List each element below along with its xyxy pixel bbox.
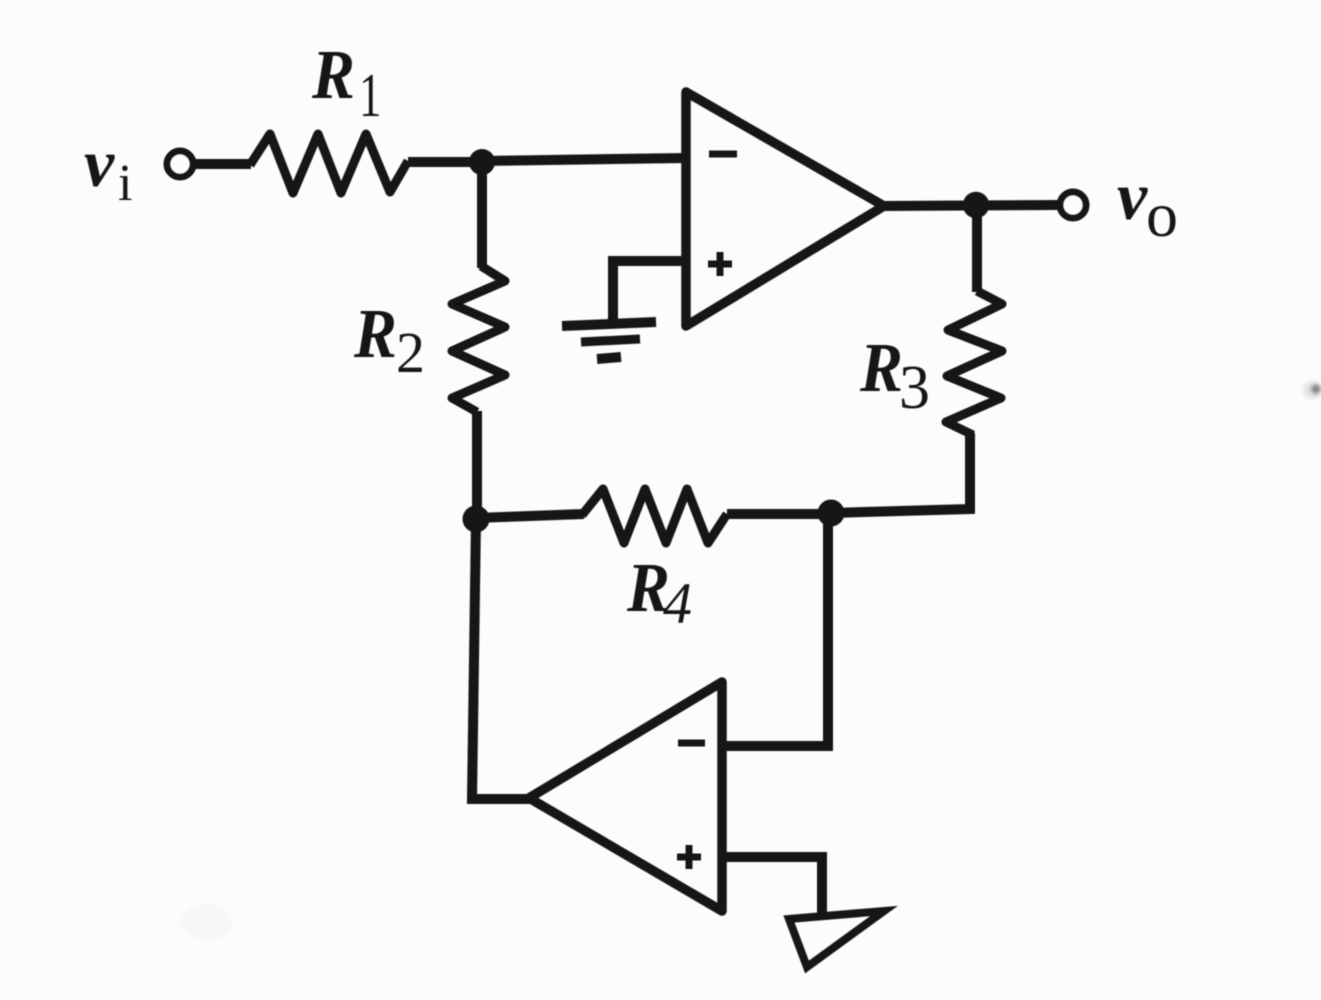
wire vi to R1 xyxy=(194,159,251,169)
node C junction dot xyxy=(818,500,845,527)
svg-text:R: R xyxy=(353,295,397,373)
wire node A down to R2 xyxy=(477,162,487,268)
label R1 xyxy=(311,36,381,130)
label R2 xyxy=(353,295,425,385)
resistor R4 xyxy=(582,489,727,543)
svg-text:v: v xyxy=(84,125,115,201)
svg-text:4: 4 xyxy=(663,571,692,636)
ground G1 xyxy=(562,322,656,359)
svg-text:R: R xyxy=(859,329,903,407)
wire U2 non-inverting input down xyxy=(722,857,822,915)
scan artifact bottom left faint blotch xyxy=(180,904,232,940)
U1 inverting pin minus sign xyxy=(709,151,737,158)
svg-text:v: v xyxy=(1117,158,1148,234)
output terminal vo xyxy=(1060,192,1086,218)
wire R2 to node B xyxy=(472,411,482,520)
scan artifact right edge dot xyxy=(1312,385,1321,394)
wire R3 top to node D xyxy=(972,204,982,292)
node vo label xyxy=(1117,158,1178,250)
label R3 xyxy=(859,329,930,422)
wire node A to op-amp U1 inverting input xyxy=(482,158,686,161)
node vi label xyxy=(84,125,132,212)
U2 non-inverting pin plus sign xyxy=(677,845,701,869)
wire R4 to node C xyxy=(727,509,831,519)
wire U1 non-inverting input to ground xyxy=(613,261,688,321)
node B junction dot xyxy=(463,506,490,533)
node A junction dot xyxy=(469,149,495,175)
label R4 xyxy=(626,549,692,636)
node D junction dot xyxy=(963,192,989,218)
svg-text:o: o xyxy=(1146,179,1178,250)
resistor R2 xyxy=(452,266,505,412)
wire R1 to node A xyxy=(408,157,482,167)
resistor R3 xyxy=(946,291,1002,435)
wire U1 output to terminal vo xyxy=(884,205,1058,206)
wire node B to R4 xyxy=(476,514,584,518)
op-amp U2 xyxy=(529,682,722,911)
svg-text:R: R xyxy=(311,36,355,114)
wire U2 inverting input to node C xyxy=(722,513,828,746)
input terminal vi xyxy=(167,151,193,177)
U2 inverting pin minus sign xyxy=(678,740,705,747)
U1 non-inverting pin plus sign xyxy=(708,252,732,276)
ground G2 xyxy=(789,911,884,967)
wire U2 output to node B xyxy=(472,519,531,799)
svg-text:2: 2 xyxy=(396,320,425,385)
svg-text:3: 3 xyxy=(899,354,930,422)
svg-text:1: 1 xyxy=(359,61,381,130)
wire node C to R3 bottom lead xyxy=(831,433,970,513)
resistor R1 xyxy=(250,134,408,193)
op-amp U1 xyxy=(686,92,884,326)
svg-text:i: i xyxy=(118,155,132,212)
